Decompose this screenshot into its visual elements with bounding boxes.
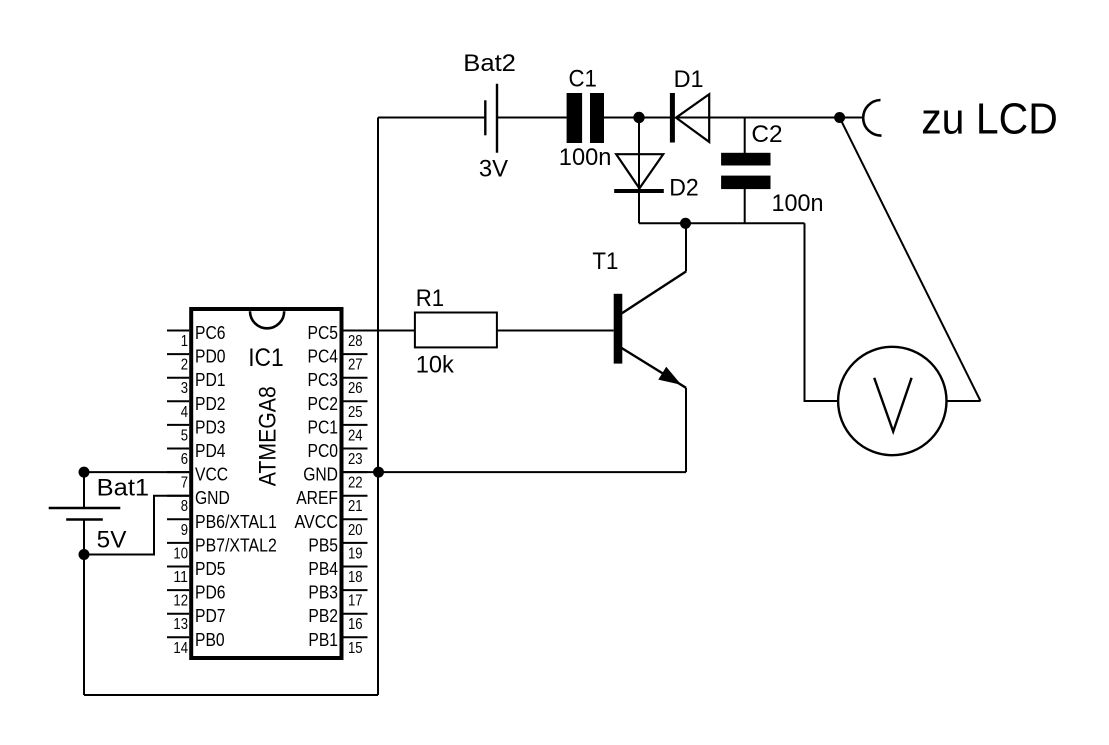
pin 10 stub	[167, 542, 189, 544]
capacitor C2 top plate	[721, 153, 770, 166]
wire GND pin8 L-shape to Bat1-	[84, 496, 189, 555]
connector to LCD (arc)	[863, 100, 881, 136]
node output junction dot	[834, 112, 845, 123]
svg-text:100n: 100n	[559, 144, 612, 171]
svg-text:PB1: PB1	[308, 630, 338, 650]
svg-text:9: 9	[181, 522, 188, 539]
pin 16 stub	[344, 613, 368, 615]
svg-text:15: 15	[348, 640, 363, 657]
svg-text:11: 11	[173, 569, 188, 586]
diode D1 cathode bar	[670, 93, 675, 143]
pin 3 stub	[167, 377, 189, 379]
battery Bat2 plate short	[484, 100, 486, 135]
svg-text:PD4: PD4	[195, 441, 226, 461]
pin 14 stub	[167, 636, 189, 638]
svg-text:18: 18	[348, 569, 363, 586]
pin 7 stub	[167, 471, 189, 473]
pin 1 stub	[167, 330, 189, 332]
pin 15 stub	[344, 636, 368, 638]
voltmeter V letter	[874, 378, 911, 432]
svg-text:24: 24	[348, 427, 363, 444]
wire D2 branch vertical	[638, 118, 640, 224]
svg-text:8: 8	[181, 498, 188, 515]
svg-text:PC6: PC6	[195, 323, 226, 343]
wire R1 to T1 base	[497, 330, 614, 332]
svg-text:AVCC: AVCC	[295, 512, 339, 532]
pin 17 stub	[344, 589, 368, 591]
transistor T1 collector line	[620, 272, 686, 315]
svg-text:ATMEGA8: ATMEGA8	[255, 386, 282, 486]
svg-text:C2: C2	[751, 121, 782, 148]
svg-text:3: 3	[181, 380, 188, 397]
svg-text:22: 22	[348, 475, 363, 492]
pin 9 stub	[167, 518, 189, 520]
pin 26 stub	[344, 377, 368, 379]
svg-text:2: 2	[181, 357, 188, 374]
transistor T1 emitter arrow	[659, 368, 680, 384]
wire Bat1 vertical top	[83, 472, 85, 508]
svg-text:GND: GND	[303, 465, 338, 485]
svg-text:25: 25	[348, 404, 363, 421]
svg-text:17: 17	[348, 593, 363, 610]
svg-text:R1: R1	[416, 285, 444, 312]
svg-text:PC0: PC0	[308, 441, 339, 461]
wire C1 to D1 (through node)	[604, 117, 672, 119]
pin 19 stub	[344, 542, 368, 544]
battery Bat1 plate short	[66, 518, 103, 520]
svg-text:5V: 5V	[97, 527, 127, 554]
resistor R1 body	[415, 313, 497, 348]
svg-text:PB3: PB3	[308, 583, 338, 603]
wire left vertical rail (Bat- net)	[377, 118, 379, 696]
svg-text:5: 5	[181, 427, 188, 444]
svg-text:6: 6	[181, 451, 188, 468]
svg-text:PC2: PC2	[308, 394, 339, 414]
wire voltmeter left branch	[805, 223, 839, 401]
node GND junction dot	[373, 467, 384, 478]
diode D1 triangle	[676, 94, 709, 142]
svg-text:10: 10	[173, 545, 188, 562]
pin 22 stub	[344, 471, 368, 473]
svg-text:12: 12	[173, 593, 188, 610]
svg-text:20: 20	[348, 522, 363, 539]
pin 6 stub	[167, 448, 189, 450]
svg-text:PD1: PD1	[195, 370, 226, 390]
svg-text:PB4: PB4	[308, 559, 338, 579]
node Bat1+ junction dot	[79, 467, 90, 478]
svg-text:13: 13	[173, 616, 188, 633]
svg-text:PC3: PC3	[308, 370, 339, 390]
svg-text:26: 26	[348, 380, 363, 397]
svg-text:PD7: PD7	[195, 606, 226, 626]
svg-text:PB0: PB0	[195, 630, 225, 650]
svg-text:PD0: PD0	[195, 347, 226, 367]
svg-text:14: 14	[173, 640, 188, 657]
svg-text:AREF: AREF	[296, 488, 338, 508]
svg-text:T1: T1	[592, 248, 618, 275]
node collector junction dot	[680, 218, 691, 229]
battery Bat1 plate long	[49, 507, 121, 509]
wire D1 to output node	[676, 117, 864, 119]
capacitor C1 left plate	[567, 93, 583, 143]
svg-text:27: 27	[348, 357, 363, 374]
svg-text:Bat1: Bat1	[97, 474, 149, 501]
IC U1 body (ATMEGA8 DIP-28)	[191, 309, 341, 658]
svg-text:10k: 10k	[416, 352, 455, 379]
svg-text:PB5: PB5	[308, 535, 338, 555]
wire bottom rail	[84, 694, 378, 696]
svg-text:PD5: PD5	[195, 559, 226, 579]
svg-text:PB6/XTAL1: PB6/XTAL1	[195, 512, 277, 532]
IC notch	[250, 311, 284, 328]
svg-text:GND: GND	[195, 488, 230, 508]
battery Bat2 plate long	[496, 84, 498, 153]
svg-text:PD6: PD6	[195, 583, 226, 603]
pin 25 stub	[344, 400, 368, 402]
capacitor C2 wire top	[744, 118, 746, 154]
wire Bat2 to C1	[497, 117, 567, 119]
svg-text:zu LCD: zu LCD	[921, 95, 1058, 144]
pin 12 stub	[167, 589, 189, 591]
wire emitter vertical	[685, 388, 687, 472]
svg-text:C1: C1	[569, 66, 597, 93]
svg-text:19: 19	[348, 545, 363, 562]
pin 2 stub	[167, 353, 189, 355]
wire mid rail D2 to voltmeter branch	[639, 222, 805, 224]
node C1/D1/D2 junction dot	[633, 112, 644, 123]
voltmeter V1 circle	[838, 347, 946, 455]
svg-text:IC1: IC1	[248, 344, 284, 372]
svg-text:PB2: PB2	[308, 606, 338, 626]
transistor T1 base bar	[614, 294, 623, 364]
pin 18 stub	[344, 566, 368, 568]
capacitor C2 wire bottom	[744, 189, 746, 223]
wire collector vertical	[685, 223, 687, 271]
svg-text:100n: 100n	[772, 190, 824, 217]
node Bat1- junction dot	[79, 549, 90, 560]
pin 28 stub	[344, 330, 368, 332]
svg-text:16: 16	[348, 616, 363, 633]
svg-text:23: 23	[348, 451, 363, 468]
wire GND pin22 to emitter	[344, 471, 687, 473]
pin 21 stub	[344, 495, 368, 497]
wire voltmeter right terminal	[947, 400, 981, 402]
pin 8 stub	[167, 495, 189, 497]
svg-text:4: 4	[181, 404, 188, 421]
transistor T1 emitter line	[620, 347, 686, 388]
diode D2 triangle	[616, 154, 663, 188]
pin 13 stub	[167, 613, 189, 615]
wire diagonal to output node	[840, 118, 981, 402]
svg-text:PC5: PC5	[308, 323, 339, 343]
pin 23 stub	[344, 448, 368, 450]
svg-text:D2: D2	[669, 175, 699, 202]
svg-text:PB7/XTAL2: PB7/XTAL2	[195, 535, 277, 555]
wire pin28 to R1	[344, 330, 415, 332]
capacitor C1 right plate	[590, 93, 604, 143]
svg-text:7: 7	[181, 475, 188, 492]
svg-text:PC4: PC4	[308, 347, 339, 367]
svg-text:PD3: PD3	[195, 417, 226, 437]
diode D2 cathode bar	[614, 189, 664, 193]
svg-text:D1: D1	[674, 66, 704, 93]
svg-text:3V: 3V	[479, 156, 508, 183]
pin 11 stub	[167, 566, 189, 568]
pin 27 stub	[344, 353, 368, 355]
svg-text:VCC: VCC	[195, 465, 228, 485]
pin 4 stub	[167, 400, 189, 402]
capacitor C2 bottom plate	[721, 176, 770, 190]
pin 24 stub	[344, 424, 368, 426]
svg-text:PC1: PC1	[308, 417, 339, 437]
wire VCC pin7 to Bat1+	[84, 471, 189, 473]
svg-text:28: 28	[348, 333, 363, 350]
pin 5 stub	[167, 424, 189, 426]
wire top rail to Bat2	[378, 117, 485, 119]
svg-text:1: 1	[181, 333, 188, 350]
svg-text:PD2: PD2	[195, 394, 226, 414]
wire Bat1 vertical bottom	[83, 520, 85, 696]
pin 20 stub	[344, 518, 368, 520]
svg-text:Bat2: Bat2	[463, 50, 516, 77]
svg-text:21: 21	[348, 498, 363, 515]
